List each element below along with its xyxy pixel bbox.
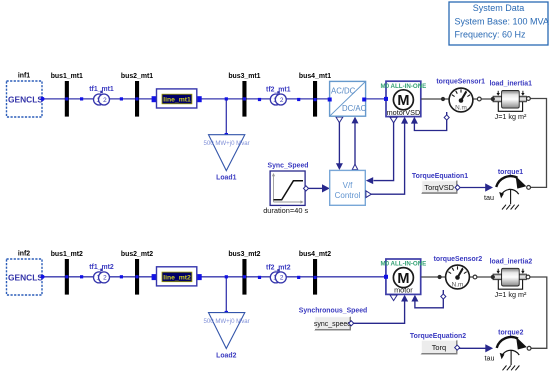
wire sensor2 tau to motor2: [415, 290, 443, 308]
node b2: [120, 275, 123, 278]
bus bus4_mt2: [299, 251, 331, 295]
load Load2: [203, 311, 249, 360]
motor motor2: [380, 259, 426, 301]
svg-text:bus3_mt1: bus3_mt1: [228, 73, 260, 80]
wire flange sensor-inertia: [472, 98, 493, 100]
svg-text:bus2_mt2: bus2_mt2: [121, 251, 153, 258]
svg-text:500 MW+j0 Mvar: 500 MW+j0 Mvar: [203, 318, 249, 325]
support torque2: [502, 350, 520, 357]
svg-text:motorVSD: motorVSD: [387, 108, 421, 117]
wire sensor tau to motor: [414, 112, 446, 131]
svg-text:tau: tau: [485, 354, 495, 363]
svg-text:Control: Control: [335, 191, 361, 200]
wire tap to Load2: [225, 277, 227, 313]
generator inf2 GENCLS: [7, 251, 45, 296]
wire flange inertia2-torque2: [529, 277, 547, 348]
svg-text:inf2: inf2: [18, 251, 30, 258]
svg-text:1: 1: [273, 97, 277, 104]
annotation System Data box: [449, 2, 549, 45]
svg-text:tau: tau: [484, 193, 494, 202]
signal source Sync_Speed: [263, 163, 308, 216]
svg-text:DC/AC: DC/AC: [342, 104, 367, 113]
svg-text:Sync_Speed: Sync_Speed: [268, 163, 309, 170]
svg-text:line_mt1: line_mt1: [163, 97, 191, 104]
wire main bus line mt2: [43, 276, 386, 278]
svg-text:1: 1: [96, 275, 100, 282]
svg-text:M0 ALL-IN-ONE: M0 ALL-IN-ONE: [380, 261, 426, 268]
svg-text:N.m: N.m: [455, 104, 467, 111]
load Load1: [203, 133, 249, 182]
node c1: [258, 98, 261, 101]
node junction load tap 1: [225, 97, 228, 100]
wire V/f out to motor: [371, 123, 405, 194]
svg-text:load_inertia1: load_inertia1: [489, 81, 532, 88]
svg-text:line_mt2: line_mt2: [163, 275, 191, 282]
svg-text:System Data: System Data: [473, 3, 525, 13]
svg-text:bus4_mt1: bus4_mt1: [299, 73, 331, 80]
svg-text:bus1_mt2: bus1_mt2: [51, 251, 83, 258]
wire main bus line mt1: [43, 98, 386, 100]
node a1: [80, 97, 83, 100]
svg-text:Frequency: 60 Hz: Frequency: 60 Hz: [455, 30, 527, 40]
node d1: [297, 98, 300, 101]
svg-text:2: 2: [280, 275, 284, 282]
wire flange inertia-torque1: [530, 99, 547, 188]
wire TorqueEquation1 to torque1: [455, 185, 460, 190]
equation block TorqueEquation1: [412, 173, 468, 194]
generator inf1 GENCLS: [7, 73, 45, 118]
transmission line line_mt1: [152, 89, 202, 108]
motor motorVSD: [380, 81, 426, 123]
svg-text:torque2: torque2: [498, 330, 523, 337]
support torque1: [501, 189, 519, 196]
torque source torque1: [484, 169, 530, 210]
svg-text:sync_speed: sync_speed: [314, 321, 351, 328]
signal source Synchronous_Speed: [299, 307, 368, 330]
svg-text:load_inertia2: load_inertia2: [490, 259, 533, 266]
bus bus4_mt1: [299, 73, 331, 117]
svg-text:duration=40 s: duration=40 s: [263, 206, 308, 215]
inertia load_inertia1: [489, 81, 532, 122]
node c2: [258, 276, 261, 279]
wire flange motor-sensor: [421, 98, 450, 100]
bus bus1_mt2: [51, 251, 83, 295]
svg-text:AC/DC: AC/DC: [331, 87, 356, 96]
svg-text:M: M: [397, 271, 409, 287]
transformer tf1_mt2: [89, 264, 114, 283]
converter AC/DC DC/AC: [328, 81, 367, 116]
svg-text:TorqueEquation2: TorqueEquation2: [410, 333, 466, 340]
wire flange sensor2-inertia2: [468, 276, 493, 278]
wire Sync_Speed to V/f: [303, 186, 308, 191]
svg-text:1: 1: [273, 275, 277, 282]
svg-text:GENCLS: GENCLS: [8, 94, 43, 104]
wire TorqueEquation2 to torque2: [455, 345, 460, 350]
transformer tf1_mt1: [89, 86, 114, 105]
svg-text:Synchronous_Speed: Synchronous_Speed: [299, 307, 368, 314]
svg-text:J=1 kg m²: J=1 kg m²: [495, 112, 527, 121]
bus bus3_mt1: [228, 73, 260, 117]
svg-text:M: M: [397, 93, 409, 109]
node junction load tap 2: [225, 275, 228, 278]
wire sync_speed to motor2: [353, 301, 405, 323]
equation block TorqueEquation2: [410, 333, 466, 354]
svg-text:2: 2: [103, 275, 107, 282]
svg-text:M0 ALL-IN-ONE: M0 ALL-IN-ONE: [380, 83, 426, 90]
wire flange motor2-sensor2: [421, 276, 447, 278]
svg-text:motor: motor: [394, 286, 413, 295]
svg-text:bus4_mt2: bus4_mt2: [299, 251, 331, 258]
transformer tf2_mt1: [266, 87, 291, 106]
svg-text:System Base: 100 MVA: System Base: 100 MVA: [455, 17, 549, 27]
node d2: [297, 276, 300, 279]
wire converter meas out (to V/f): [336, 117, 343, 170]
svg-text:N.m: N.m: [452, 281, 464, 288]
svg-text:TorqVSD: TorqVSD: [424, 183, 454, 192]
node a2: [80, 275, 83, 278]
node b1: [120, 97, 123, 100]
bus bus1_mt1: [51, 73, 83, 117]
wire tap to Load1: [225, 99, 227, 135]
svg-text:500 MW+j0 Mvar: 500 MW+j0 Mvar: [203, 140, 249, 147]
svg-text:Torq: Torq: [432, 343, 446, 352]
svg-text:2: 2: [280, 97, 284, 104]
bus bus2_mt1: [121, 73, 153, 117]
bus bus2_mt2: [121, 251, 153, 295]
svg-text:GENCLS: GENCLS: [8, 272, 43, 282]
bus bus3_mt2: [228, 251, 260, 295]
svg-text:V/f: V/f: [343, 181, 354, 190]
svg-text:torqueSensor2: torqueSensor2: [434, 256, 483, 263]
transmission line line_mt2: [152, 267, 202, 286]
controller V/f Control: [330, 170, 372, 205]
wire converter ctrl in (from V/f): [352, 117, 359, 170]
transformer tf2_mt2: [266, 264, 291, 283]
svg-text:Load1: Load1: [216, 175, 236, 182]
svg-text:2: 2: [103, 97, 107, 104]
svg-text:1: 1: [96, 97, 100, 104]
svg-text:TorqueEquation1: TorqueEquation1: [412, 173, 468, 180]
wire motor speed out to V/f: [374, 122, 394, 181]
svg-text:Load2: Load2: [216, 352, 236, 359]
inertia load_inertia2: [490, 259, 533, 299]
torque source torque2: [485, 330, 531, 371]
svg-text:torqueSensor1: torqueSensor1: [436, 79, 485, 86]
svg-text:bus3_mt2: bus3_mt2: [228, 251, 260, 258]
svg-text:bus2_mt1: bus2_mt1: [121, 73, 153, 80]
svg-text:inf1: inf1: [18, 73, 30, 80]
svg-text:bus1_mt1: bus1_mt1: [51, 73, 83, 80]
svg-text:J=1 kg m²: J=1 kg m²: [495, 290, 527, 299]
sensor torqueSensor1: [436, 79, 485, 112]
sensor torqueSensor2: [434, 256, 483, 289]
